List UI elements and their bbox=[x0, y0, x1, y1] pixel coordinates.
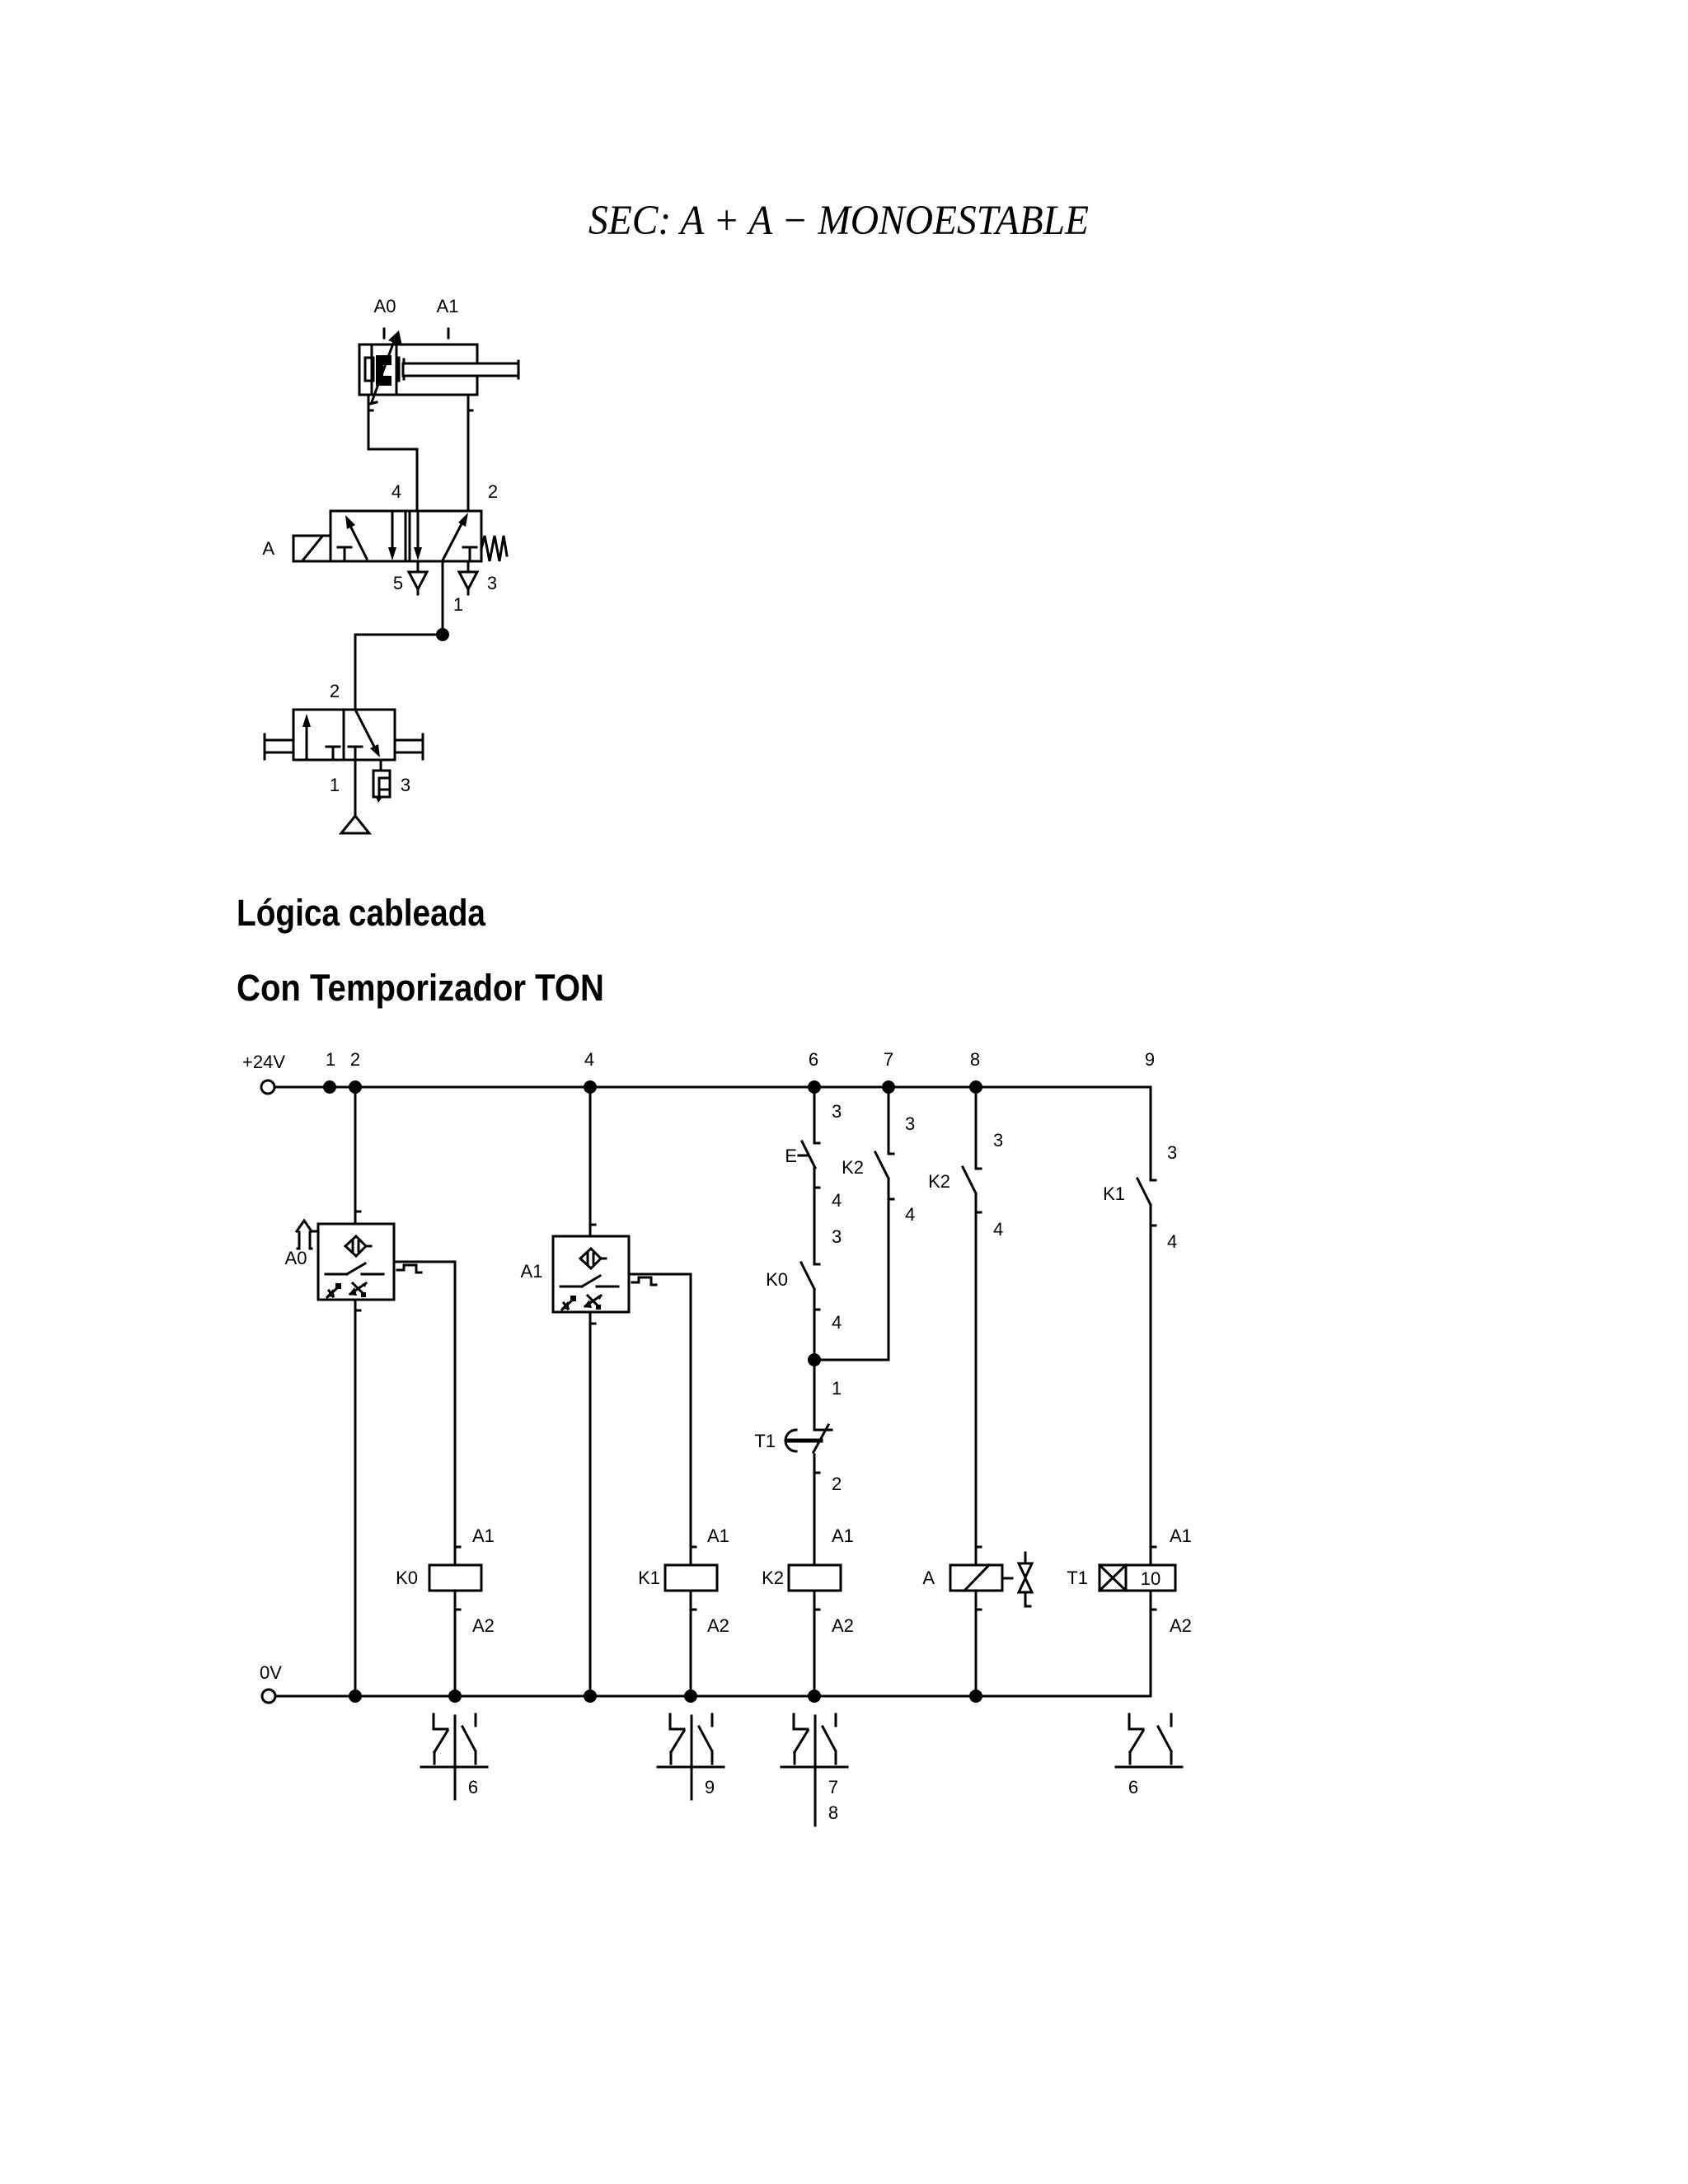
svg-text:0V: 0V bbox=[260, 1662, 282, 1683]
contact reference K2 bbox=[781, 1714, 847, 1825]
contact K2 branch 8 (NO) bbox=[963, 1167, 976, 1193]
node 4 bbox=[584, 1080, 597, 1094]
svg-text:A2: A2 bbox=[1170, 1615, 1192, 1636]
valve 3/2 left cell blocked port bbox=[326, 746, 340, 748]
svg-text:4: 4 bbox=[392, 481, 401, 502]
svg-text:2: 2 bbox=[330, 681, 340, 701]
svg-text:7: 7 bbox=[828, 1777, 838, 1797]
svg-text:9: 9 bbox=[705, 1777, 715, 1797]
svg-text:3: 3 bbox=[993, 1130, 1003, 1151]
+24V terminal bbox=[261, 1080, 274, 1094]
valve 3/2 right cell path 2-3 bbox=[355, 710, 374, 747]
wire K0 contact down bbox=[814, 1289, 816, 1430]
wire branch 7 down to junction bbox=[814, 1179, 889, 1360]
svg-text:A2: A2 bbox=[707, 1615, 729, 1636]
air supply source bbox=[341, 816, 369, 833]
wire timer coil to 0V bbox=[1150, 1591, 1152, 1696]
svg-text:2: 2 bbox=[350, 1049, 360, 1070]
svg-text:3: 3 bbox=[401, 775, 410, 795]
silencer on port 3 bbox=[380, 760, 382, 771]
wire rail to sensor A1 bbox=[589, 1087, 592, 1236]
wire coil K0 to 0V bbox=[454, 1591, 457, 1696]
svg-text:A: A bbox=[922, 1568, 935, 1588]
svg-text:4: 4 bbox=[1167, 1231, 1177, 1252]
valve 5/2 right cell blocked port 3 bbox=[463, 546, 476, 549]
wire cylinder right port to valve port 2 bbox=[467, 410, 470, 511]
wire branch 9 to timer coil bbox=[1150, 1205, 1152, 1565]
wire coil A to 0V bbox=[975, 1591, 978, 1696]
svg-text:1: 1 bbox=[326, 1049, 335, 1070]
wire coil K2 to 0V bbox=[814, 1591, 816, 1696]
node 7 bbox=[882, 1080, 895, 1094]
svg-text:2: 2 bbox=[832, 1474, 842, 1494]
A0 actuation arrow bbox=[297, 1221, 316, 1231]
wire sensor A1 bottom to 0V bbox=[589, 1312, 592, 1696]
contact reference K1 bbox=[658, 1714, 724, 1799]
valve 3/2 left actuator bbox=[264, 734, 266, 759]
svg-text:A1: A1 bbox=[472, 1526, 495, 1546]
svg-text:4: 4 bbox=[584, 1049, 594, 1070]
0V rail bbox=[276, 1695, 1151, 1698]
valve 5/2 right cell path 4-5 bbox=[417, 512, 420, 551]
svg-text:T1: T1 bbox=[1067, 1568, 1088, 1588]
valve 3/2 right cell blocked port 1 bbox=[349, 746, 362, 748]
sensor A0 output wire bbox=[394, 1261, 455, 1263]
svg-text:4: 4 bbox=[993, 1219, 1003, 1240]
piston magnet bbox=[376, 355, 392, 386]
wire junction to 3/2 valve port 2 bbox=[355, 635, 443, 710]
contact K0 (NO) bbox=[801, 1263, 814, 1289]
svg-text:A1: A1 bbox=[521, 1261, 543, 1282]
svg-text:9: 9 bbox=[1145, 1049, 1155, 1070]
+24V rail bbox=[275, 1086, 1151, 1089]
svg-text:T1: T1 bbox=[754, 1431, 776, 1451]
piston rod bbox=[403, 363, 518, 376]
svg-text:6: 6 bbox=[468, 1777, 478, 1797]
contact K1 (NO) bbox=[1137, 1179, 1151, 1205]
valve 5/2 left cell blocked port bbox=[338, 546, 351, 549]
coil K2 bbox=[789, 1565, 841, 1591]
junction node 6/7 bbox=[808, 1353, 821, 1366]
svg-text:6: 6 bbox=[1128, 1777, 1138, 1797]
svg-text:1: 1 bbox=[330, 775, 340, 795]
0V node coil A bbox=[969, 1690, 982, 1703]
svg-text:E: E bbox=[785, 1146, 797, 1166]
svg-text:8: 8 bbox=[970, 1049, 980, 1070]
junction node bbox=[436, 628, 449, 641]
node 1 bbox=[323, 1080, 336, 1094]
0V node coil K0 bbox=[448, 1690, 462, 1703]
svg-text:1: 1 bbox=[453, 594, 463, 615]
contact K2 branch 7 (NO) bbox=[875, 1152, 889, 1179]
valve indicator at coil A bbox=[1025, 1553, 1027, 1563]
svg-text:K1: K1 bbox=[1103, 1183, 1125, 1204]
svg-text:3: 3 bbox=[832, 1226, 842, 1247]
piston arrow bbox=[372, 341, 394, 402]
proximity sensor A1 bbox=[553, 1236, 629, 1312]
svg-text:6: 6 bbox=[809, 1049, 818, 1070]
sensor tick A1 bbox=[448, 329, 450, 338]
svg-text:+24V: +24V bbox=[242, 1052, 285, 1072]
coil K1 bbox=[665, 1565, 717, 1591]
svg-text:7: 7 bbox=[884, 1049, 893, 1070]
svg-text:K2: K2 bbox=[762, 1568, 784, 1588]
svg-text:Con Temporizador TON: Con Temporizador TON bbox=[237, 967, 604, 1009]
svg-text:K0: K0 bbox=[766, 1269, 788, 1290]
edge symbol A0 bbox=[397, 1265, 421, 1272]
svg-text:2: 2 bbox=[488, 481, 498, 502]
svg-text:4: 4 bbox=[905, 1204, 915, 1225]
svg-text:A2: A2 bbox=[472, 1615, 495, 1636]
svg-text:A1: A1 bbox=[832, 1526, 854, 1546]
contact E (NO) bbox=[802, 1141, 815, 1168]
wire sensor A0 bottom to 0V bbox=[354, 1300, 357, 1696]
svg-text:3: 3 bbox=[487, 573, 497, 593]
cylinder A body bbox=[359, 344, 477, 395]
cylinder port right bbox=[467, 395, 470, 410]
coil K0 bbox=[429, 1565, 481, 1591]
wire A0 output down to coil K0 bbox=[454, 1262, 457, 1565]
cylinder cushion seal bbox=[365, 358, 373, 381]
branch 7 wire from rail bbox=[888, 1087, 890, 1154]
0V terminal bbox=[262, 1690, 275, 1703]
svg-text:K1: K1 bbox=[638, 1568, 660, 1588]
0V node coil K1 bbox=[684, 1690, 697, 1703]
contact reference T1 bbox=[1116, 1714, 1182, 1797]
proximity sensor A0 bbox=[318, 1224, 394, 1300]
sensor A1 output wire bbox=[629, 1273, 691, 1276]
svg-text:A: A bbox=[262, 538, 274, 559]
contact reference K0 bbox=[421, 1714, 487, 1799]
branch 6 wire from rail bbox=[814, 1087, 816, 1143]
exhaust port 5 bbox=[417, 561, 420, 572]
cylinder piston bbox=[396, 344, 398, 395]
wire branch 8 to coil A bbox=[975, 1193, 978, 1565]
branch 8 wire from rail bbox=[975, 1087, 978, 1169]
0V node sensor A0 bbox=[349, 1690, 362, 1703]
0V node sensor A1 bbox=[584, 1690, 597, 1703]
svg-text:1: 1 bbox=[832, 1378, 842, 1399]
solenoid A of valve bbox=[293, 536, 331, 561]
branch 9 wire from rail bbox=[1150, 1087, 1152, 1180]
sensor tick A0 bbox=[383, 329, 386, 338]
valve return spring bbox=[481, 536, 507, 561]
wire coil K1 to 0V bbox=[690, 1591, 692, 1696]
svg-text:K2: K2 bbox=[842, 1157, 864, 1178]
0V node coil K2 bbox=[808, 1690, 821, 1703]
svg-text:A0: A0 bbox=[374, 296, 396, 316]
wire E to K0 contact bbox=[814, 1168, 816, 1264]
valve 5/2 left cell crossed arrow bbox=[350, 526, 367, 559]
wire valve port 1 down bbox=[442, 561, 444, 635]
timer coil T1 bbox=[1100, 1565, 1175, 1591]
svg-text:A1: A1 bbox=[437, 296, 459, 316]
valve 3/2 body bbox=[293, 710, 395, 760]
valve 5/2 left cell down path bbox=[392, 512, 394, 551]
valve 5/2 right cell path 1-2 bbox=[443, 519, 464, 560]
wire T1 contact to coil K2 bbox=[814, 1455, 816, 1565]
exhaust port 3 bbox=[467, 561, 470, 572]
wire cylinder left port to valve port 4 bbox=[368, 410, 417, 511]
svg-text:A2: A2 bbox=[832, 1615, 854, 1636]
svg-text:8: 8 bbox=[828, 1802, 838, 1823]
valve 3/2 left cell up arrow bbox=[306, 722, 308, 759]
svg-text:3: 3 bbox=[832, 1101, 842, 1122]
svg-text:K0: K0 bbox=[396, 1568, 418, 1588]
wire A1 output down to coil K1 bbox=[690, 1274, 692, 1565]
svg-text:A0: A0 bbox=[285, 1248, 307, 1268]
timer contact T1 bbox=[815, 1429, 832, 1432]
valve 3/2 right actuator bbox=[422, 734, 424, 759]
wire 3/2 port 1 to supply bbox=[354, 760, 357, 814]
svg-text:5: 5 bbox=[393, 573, 403, 593]
svg-text:K2: K2 bbox=[928, 1171, 950, 1192]
svg-text:Lógica cableada: Lógica cableada bbox=[237, 892, 486, 934]
node 8 bbox=[969, 1080, 982, 1094]
svg-text:4: 4 bbox=[832, 1312, 842, 1333]
node 6 bbox=[808, 1080, 821, 1094]
svg-text:3: 3 bbox=[1167, 1142, 1177, 1163]
wire rail to sensor A0 bbox=[354, 1087, 357, 1224]
valve 5/2 body bbox=[331, 511, 481, 561]
edge symbol A1 bbox=[632, 1277, 656, 1285]
svg-text:4: 4 bbox=[832, 1190, 842, 1211]
svg-text:SEC: A + A − MONOESTABLE: SEC: A + A − MONOESTABLE bbox=[588, 198, 1089, 244]
coil A (valve solenoid) bbox=[950, 1565, 1002, 1591]
cylinder port left bbox=[368, 395, 370, 410]
node 2 bbox=[349, 1080, 362, 1094]
svg-text:A1: A1 bbox=[707, 1526, 729, 1546]
svg-text:A1: A1 bbox=[1170, 1526, 1192, 1546]
svg-text:10: 10 bbox=[1141, 1568, 1160, 1589]
svg-text:3: 3 bbox=[905, 1113, 915, 1134]
